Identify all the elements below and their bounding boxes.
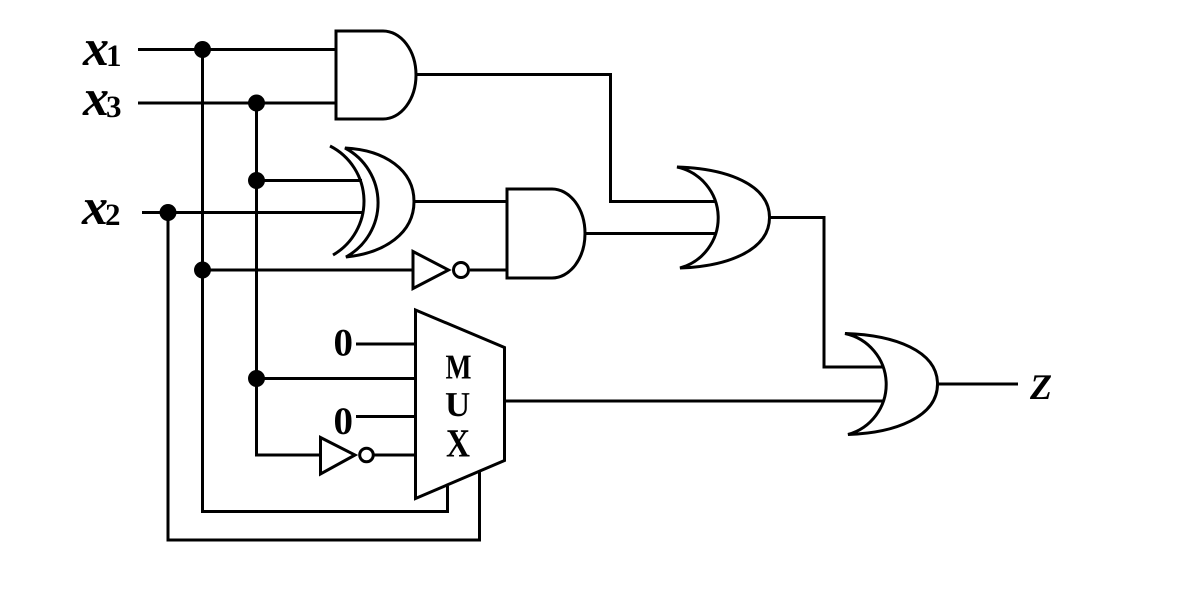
wire xor top input xyxy=(257,179,363,182)
svg-text:x: x xyxy=(82,70,109,127)
junction dot x1 xyxy=(194,41,211,58)
wire mux input from x3 line xyxy=(257,377,418,380)
wire x3 input xyxy=(138,102,336,105)
svg-text:X: X xyxy=(446,421,470,466)
wire and1 output to or1 xyxy=(416,75,716,202)
wire inverter U1 output xyxy=(470,269,507,272)
junction dot x3 xyxy=(248,95,265,112)
svg-text:x: x xyxy=(81,179,108,236)
OR gate G4 xyxy=(677,167,770,268)
wire x2 input xyxy=(142,211,364,214)
AND gate G1 xyxy=(336,31,416,119)
svg-text:M: M xyxy=(446,348,472,387)
XOR gate G3 body xyxy=(345,148,414,257)
inverter U1 bubble xyxy=(454,263,469,278)
wire and2 output xyxy=(585,232,716,235)
inverter U2 bubble xyxy=(360,448,374,462)
wire vertical from x1 to select line xyxy=(203,50,448,512)
wire mux output to or2 xyxy=(503,400,884,403)
junction dot x2 xyxy=(160,204,177,221)
svg-text:0: 0 xyxy=(334,400,354,443)
wire xor output xyxy=(414,200,507,203)
svg-text:3: 3 xyxy=(106,89,122,124)
svg-text:U: U xyxy=(445,385,470,424)
wire vertical from x3 to inverter U2 xyxy=(257,103,320,455)
junction dot xor top input xyxy=(248,172,265,189)
svg-text:1: 1 xyxy=(106,38,122,73)
inverter U1 triangle xyxy=(413,252,449,289)
wire mux input 0 bottom xyxy=(356,415,417,418)
XOR gate G3 back arc xyxy=(330,146,364,255)
svg-text:Z: Z xyxy=(1029,367,1052,407)
wire vertical from x2 to select line xyxy=(168,213,480,541)
OR gate G5 output gate xyxy=(845,334,938,435)
inverter U2 triangle xyxy=(321,438,356,475)
wire branch to inverter U1 xyxy=(203,269,414,272)
svg-text:0: 0 xyxy=(334,322,354,365)
svg-text:2: 2 xyxy=(105,197,121,232)
svg-text:x: x xyxy=(82,20,109,77)
MUX trapezoid xyxy=(416,310,505,499)
wire inverter U2 output xyxy=(374,454,418,457)
AND gate G2 xyxy=(507,189,585,278)
wire or1 output to or2 xyxy=(769,218,884,368)
junction dot inverter branch xyxy=(194,262,211,279)
junction dot mux input xyxy=(248,370,265,387)
wire x1 input xyxy=(138,48,336,51)
wire or2 output xyxy=(938,383,1018,386)
wire mux input 0 top xyxy=(356,343,417,346)
